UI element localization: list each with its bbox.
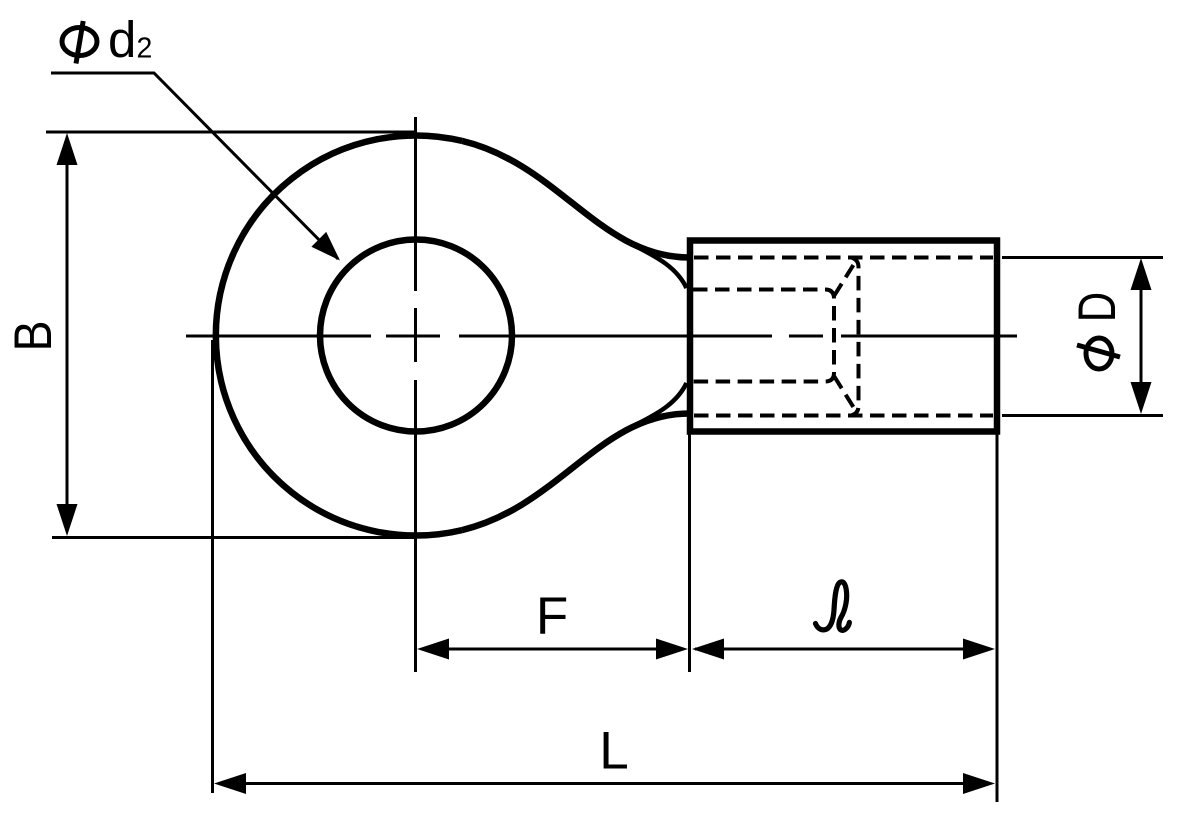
phi D arrow bottom: [1131, 382, 1152, 414]
hidden line chamfer diagonal bottom: [834, 376, 854, 408]
svg-text:2: 2: [137, 33, 153, 65]
svg-text:D: D: [1068, 292, 1127, 322]
barrel right extension line: [996, 434, 999, 802]
leader line phi d2: [51, 73, 338, 259]
stud hole circle: [320, 240, 512, 432]
B extension line top: [46, 131, 416, 134]
svg-text:F: F: [536, 587, 568, 646]
label phi (right, rotated): [1077, 338, 1120, 369]
sleeve mouth lower curve: [636, 383, 687, 425]
hidden line bore top: [694, 256, 993, 260]
B dimension line: [66, 140, 69, 530]
phi D extension line bottom: [1002, 414, 1163, 417]
F arrow right: [656, 639, 688, 660]
L arrow left: [214, 773, 246, 794]
hidden line bore bottom: [694, 414, 993, 418]
svg-text:L: L: [599, 722, 628, 781]
l arrow left: [692, 639, 724, 660]
L dimension line: [219, 782, 990, 785]
leader arrowhead: [311, 232, 340, 261]
sleeve mouth upper curve: [636, 247, 687, 289]
hidden line small bore top: [693, 290, 834, 382]
svg-text:B: B: [3, 320, 62, 351]
phi D extension line top: [1002, 256, 1163, 259]
neck lower curve: [462, 413, 690, 530]
F dimension line: [422, 648, 684, 651]
ring outer profile arc: [216, 135, 462, 535]
horizontal centerline: [186, 335, 1017, 338]
l arrow right: [963, 639, 995, 660]
hidden line chamfer diagonal top: [834, 264, 854, 296]
neck upper curve: [462, 141, 690, 258]
B extension line bottom: [52, 536, 416, 539]
B arrow top: [57, 133, 78, 165]
hidden line chamfer edge: [851, 258, 859, 416]
B arrow bottom: [57, 504, 78, 536]
l dimension line: [695, 648, 991, 651]
vertical centerline: [414, 117, 417, 672]
svg-text:d: d: [108, 11, 136, 68]
L left extension line: [211, 340, 214, 793]
label phi (top): [62, 21, 97, 64]
phi D dimension line: [1140, 264, 1143, 409]
barrel left extension line: [688, 434, 691, 672]
F arrow left: [417, 639, 449, 660]
barrel outline: [690, 241, 997, 432]
phi D arrow top: [1131, 258, 1152, 290]
L arrow right: [963, 773, 995, 794]
label script ell: [816, 582, 850, 631]
